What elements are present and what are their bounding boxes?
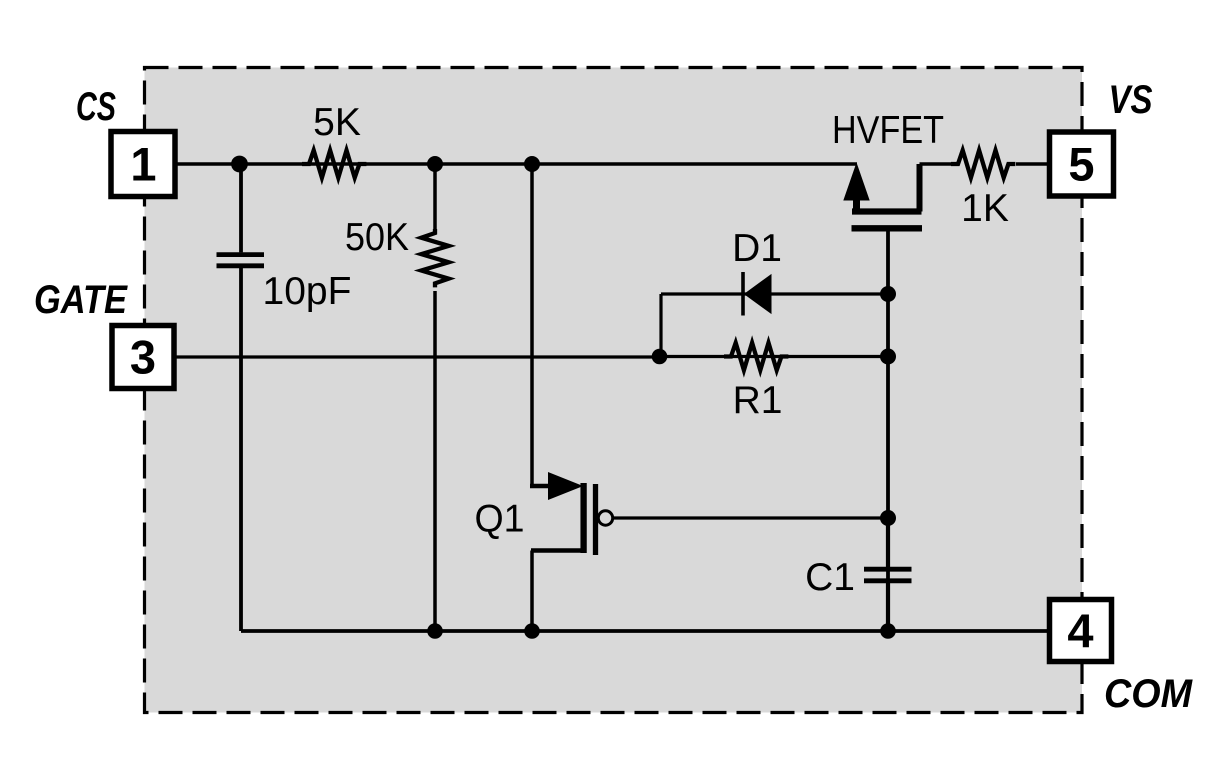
wire D1 branch vertical (659, 294, 662, 357)
HVFET source arrow (845, 166, 869, 200)
Q1 gate bubble (598, 511, 612, 525)
IC boundary dashed box (145, 68, 1083, 713)
wire Q1 gate to C1 node (613, 516, 888, 519)
node junction D1 cathode on gate vertical (880, 286, 896, 302)
svg-text:5K: 5K (313, 101, 361, 144)
wire 50K lower lead to bottom rail (433, 291, 437, 631)
svg-text:50K: 50K (345, 216, 409, 259)
svg-text:Q1: Q1 (475, 498, 525, 541)
svg-text:GATE: GATE (34, 278, 128, 322)
node junction on top rail at 10pF branch (231, 156, 248, 173)
svg-text:4: 4 (1067, 604, 1093, 657)
resistor 1K (951, 150, 1015, 177)
wire 1K to pin5 (1016, 162, 1047, 166)
node junction on top rail at Q1 branch (524, 156, 540, 172)
wire 10pF branch vertical upper lead (239, 164, 243, 252)
Q1 source lead down (530, 551, 534, 632)
wire Q1 drain vertical from top rail (530, 164, 534, 486)
node junction Q1 gate / C1 top (880, 510, 896, 526)
Q1 drain arrow (549, 474, 581, 499)
transistor HVFET (845, 164, 922, 228)
pin box 5 (1050, 132, 1114, 196)
resistor 5K (302, 150, 366, 177)
node junction on top rail at 50K branch (427, 156, 443, 172)
svg-text:R1: R1 (733, 379, 783, 422)
wire 50K branch upper lead (433, 164, 437, 229)
svg-text:C1: C1 (805, 556, 855, 599)
transistor Q1 (530, 474, 613, 632)
wire HVFET drain to 1K (920, 162, 953, 166)
Q1 drain stub (530, 484, 550, 489)
Q1 gate bar (593, 484, 598, 555)
svg-text:D1: D1 (732, 227, 782, 270)
wire C1 top lead (886, 518, 890, 567)
wire bottom rail (241, 629, 1047, 633)
svg-text:3: 3 (130, 331, 156, 384)
wire GATE rail pin3 to junction (177, 355, 660, 358)
resistor R1 (724, 343, 788, 370)
HVFET drain lead up (917, 164, 923, 212)
wire R1 line (660, 355, 889, 358)
capacitor C1 (864, 569, 912, 581)
HVFET source arrow shaft (853, 197, 860, 212)
wire D1 anode line (661, 292, 888, 295)
diode D1 (743, 272, 771, 316)
Q1 source bar (531, 548, 583, 553)
node junction R1 right on gate vertical (880, 349, 896, 365)
pin box 1 (111, 132, 175, 197)
HVFET channel bar (852, 208, 922, 214)
HVFET gate bar (852, 225, 923, 231)
wire top rail CS to HVFET source (178, 162, 858, 166)
svg-text:HVFET: HVFET (832, 109, 944, 152)
capacitor 10pF (217, 255, 265, 266)
svg-text:1: 1 (130, 138, 156, 191)
svg-text:CS: CS (76, 85, 116, 129)
svg-text:1K: 1K (961, 187, 1009, 230)
resistor 50K (421, 229, 448, 287)
pin box 3 (112, 326, 174, 389)
Q1 channel bar (580, 483, 586, 553)
node junction bottom rail Q1 source (524, 623, 540, 639)
svg-text:COM: COM (1104, 672, 1194, 716)
wire C1 bottom lead (886, 583, 890, 631)
wire 10pF bottom lead down to bottom rail (239, 268, 243, 631)
svg-text:5: 5 (1068, 138, 1094, 191)
svg-text:VS: VS (1109, 78, 1153, 122)
wire HVFET gate vertical down to bottom rail (886, 232, 890, 632)
pin box 4 (1050, 600, 1112, 662)
node junction bottom rail 50K (427, 623, 443, 639)
svg-text:10pF: 10pF (263, 270, 352, 313)
node junction bottom rail C1 (880, 623, 896, 639)
node junction GATE / D1 branch (652, 349, 668, 365)
